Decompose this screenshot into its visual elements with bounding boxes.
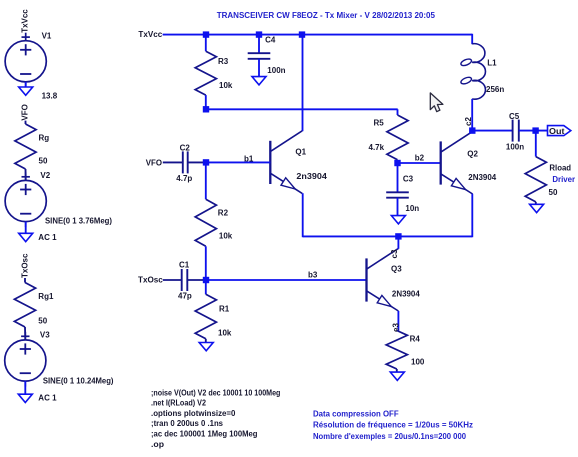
- wire emitter rail Q1-Q2: [303, 235, 473, 237]
- wire to R5 top: [397, 109, 399, 115]
- wire C1 to node: [187, 279, 206, 281]
- svg-text:Driver: Driver: [552, 175, 575, 184]
- capacitor C2: [183, 151, 188, 173]
- port Out: [548, 126, 571, 136]
- svg-text:TxVcc: TxVcc: [20, 9, 29, 33]
- svg-text:R1: R1: [219, 305, 230, 314]
- ground under C4: [252, 77, 266, 85]
- wire c2 to C5: [472, 130, 512, 132]
- wire R1 to ground: [205, 339, 207, 343]
- capacitor C1: [182, 269, 188, 291]
- svg-text:100: 100: [411, 358, 425, 367]
- svg-text:SINE(0 1 3.76Meg): SINE(0 1 3.76Meg): [45, 216, 112, 225]
- ground under R4: [390, 372, 404, 380]
- svg-text:c3: c3: [390, 249, 399, 258]
- svg-text:R2: R2: [218, 209, 229, 218]
- svg-text:L1: L1: [487, 59, 497, 68]
- transistor Q2: [441, 131, 473, 194]
- wire rail to Q1 collector: [302, 35, 304, 132]
- svg-text:10k: 10k: [219, 232, 233, 241]
- capacitor C4: [248, 53, 271, 59]
- svg-text:Rg1: Rg1: [38, 292, 54, 301]
- node junction Out/Rload: [532, 127, 538, 133]
- resistor R4: [386, 331, 407, 370]
- wire b1 node to R2: [205, 162, 207, 199]
- svg-text:R3: R3: [218, 57, 229, 66]
- svg-text:2N3904: 2N3904: [392, 290, 420, 299]
- svg-text:256n: 256n: [486, 85, 504, 94]
- svg-text:2n3904: 2n3904: [296, 172, 327, 181]
- wire TxOsc to C1: [163, 279, 182, 281]
- svg-text:AC 1: AC 1: [38, 393, 57, 402]
- node junction rail/R3: [203, 31, 209, 37]
- svg-text:50: 50: [549, 188, 558, 197]
- inductor L1: [472, 44, 485, 99]
- svg-text:;ac dec 100001 1Meg 100Meg: ;ac dec 100001 1Meg 100Meg: [151, 430, 258, 439]
- node junction b2/R5/C3: [394, 160, 400, 166]
- wire C2 to node b1: [188, 161, 206, 163]
- svg-text:10k: 10k: [218, 328, 232, 337]
- svg-text:Out: Out: [549, 127, 565, 136]
- voltage source V2: [5, 172, 46, 227]
- wire TxOsc to Rg1: [24, 278, 26, 283]
- svg-text:b3: b3: [308, 271, 318, 280]
- svg-text:13.8: 13.8: [42, 92, 58, 101]
- svg-text:AC 1: AC 1: [38, 233, 57, 242]
- svg-text:TxOsc: TxOsc: [138, 275, 163, 284]
- resistor Rload: [525, 157, 546, 202]
- svg-text:10k: 10k: [219, 81, 233, 90]
- wire VFO to C2: [163, 161, 183, 163]
- svg-text:Q1: Q1: [295, 148, 306, 157]
- resistor R2: [195, 199, 216, 246]
- wire R4 to ground: [396, 369, 398, 372]
- wire b1 to Q1 base: [206, 161, 270, 163]
- wire C5 to Out node: [519, 130, 548, 132]
- svg-text:10n: 10n: [405, 204, 419, 213]
- wire rail corner down to L1: [471, 34, 473, 44]
- node junction c2: [469, 127, 475, 133]
- node junction TxOsc/R2/R1/b3: [203, 277, 209, 283]
- svg-text:V2: V2: [40, 171, 50, 180]
- resistor Rg: [15, 124, 36, 169]
- svg-text:C5: C5: [509, 112, 520, 121]
- svg-text:Résolution de fréquence = 1/20: Résolution de fréquence = 1/20us = 50KHz: [313, 421, 473, 430]
- svg-text:;noise V(Out) V2 dec 10001 10: ;noise V(Out) V2 dec 10001 10 100Meg: [151, 388, 280, 397]
- capacitor C3: [386, 192, 409, 197]
- svg-text:C3: C3: [403, 174, 414, 183]
- ground under V1: [25, 82, 27, 87]
- wire Rg to V2: [25, 169, 27, 180]
- wire R2 to TxOsc node: [205, 246, 207, 280]
- svg-text:C4: C4: [265, 36, 276, 45]
- wire Q3 collector up to c3 node: [397, 236, 399, 248]
- svg-text:R5: R5: [374, 119, 385, 128]
- svg-text:Q3: Q3: [391, 265, 402, 274]
- wire C3 to ground: [397, 198, 399, 216]
- wire Q3 emitter down to R4: [397, 311, 399, 331]
- svg-text:100n: 100n: [267, 66, 285, 75]
- ground under V3: [24, 381, 26, 394]
- wire Rg1 to V3: [24, 327, 26, 340]
- svg-text:SINE(0 1 10.24Meg): SINE(0 1 10.24Meg): [43, 377, 114, 386]
- wire node to R1: [205, 280, 207, 294]
- node junction R3/base-row: [203, 106, 209, 112]
- svg-text:C2: C2: [180, 143, 191, 152]
- svg-text:.op: .op: [151, 440, 164, 449]
- svg-text:2N3904: 2N3904: [468, 173, 496, 182]
- svg-text:Q2: Q2: [467, 150, 478, 159]
- mouse cursor: [430, 93, 443, 112]
- node junction b1/C2/R2: [203, 159, 209, 165]
- transistor Q1: [270, 131, 302, 194]
- svg-text:c2: c2: [464, 117, 473, 126]
- wire C4 to ground: [258, 59, 260, 77]
- svg-text:50: 50: [39, 157, 48, 166]
- svg-text:.net I(RLoad) V2: .net I(RLoad) V2: [151, 399, 206, 408]
- voltage source V3: [5, 332, 46, 387]
- wire b2 node to C3: [397, 163, 399, 192]
- svg-text:4.7k: 4.7k: [369, 143, 385, 152]
- capacitor C5: [513, 120, 519, 142]
- wire node to R5: [206, 108, 398, 110]
- svg-text:4.7p: 4.7p: [176, 174, 192, 183]
- svg-text:TRANSCEIVER CW F8EOZ - Tx Mixe: TRANSCEIVER CW F8EOZ - Tx Mixer - V 28/0…: [217, 10, 435, 20]
- node junction c3 on emitter rail: [395, 233, 401, 239]
- ground under Rload: [530, 204, 544, 212]
- wire VFO to Rg: [25, 121, 27, 124]
- wire TxVcc rail: [163, 34, 473, 36]
- node junction rail/C4: [256, 31, 262, 37]
- svg-text:e3: e3: [392, 323, 401, 332]
- wire rail to R3: [205, 35, 207, 52]
- svg-text:.options plotwinsize=0: .options plotwinsize=0: [151, 409, 236, 418]
- svg-text:V1: V1: [42, 31, 52, 40]
- wire b3 to Q3 base: [206, 279, 367, 281]
- svg-text:100n: 100n: [506, 142, 524, 151]
- svg-text:Rg: Rg: [39, 134, 50, 143]
- svg-text:47p: 47p: [178, 292, 192, 301]
- wire b2 to Q2 base: [398, 162, 441, 164]
- wire L1 to c2 node: [471, 99, 473, 131]
- svg-text:V3: V3: [40, 330, 50, 339]
- svg-text:50: 50: [38, 317, 47, 326]
- resistor Rg1: [14, 283, 35, 328]
- wire R3 to node: [205, 95, 207, 109]
- wire node to Rload: [535, 131, 537, 157]
- resistor R5: [387, 115, 408, 160]
- svg-text:Nombre d'exemples = 20us/0.1ns: Nombre d'exemples = 20us/0.1ns=200 000: [313, 432, 467, 441]
- wire Q1 emitter down: [302, 193, 304, 237]
- ground under C3: [391, 216, 405, 224]
- svg-text:b1: b1: [244, 154, 254, 163]
- svg-text:Data compression OFF: Data compression OFF: [313, 410, 399, 419]
- svg-text:VFO: VFO: [21, 104, 30, 120]
- svg-text:C1: C1: [179, 260, 190, 269]
- ground under R1: [199, 343, 213, 351]
- svg-text:Rload: Rload: [549, 163, 571, 172]
- wire Q2 emitter down to rail: [471, 194, 473, 237]
- svg-text:TxOsc: TxOsc: [21, 253, 30, 278]
- node junction rail/Q1 collector: [299, 31, 305, 37]
- resistor R3: [195, 51, 216, 95]
- wire Rload to ground: [535, 202, 537, 204]
- svg-text:;tran 0 200us 0 .1ns: ;tran 0 200us 0 .1ns: [151, 419, 224, 428]
- svg-text:R4: R4: [410, 334, 421, 343]
- transistor Q3: [367, 248, 399, 311]
- svg-text:VFO: VFO: [146, 159, 162, 168]
- resistor R1: [195, 294, 216, 339]
- svg-text:b2: b2: [415, 154, 425, 163]
- svg-text:TxVcc: TxVcc: [138, 30, 162, 39]
- voltage source V1: [5, 33, 46, 88]
- ground under V2: [25, 222, 27, 234]
- wire rail to C4: [258, 35, 260, 54]
